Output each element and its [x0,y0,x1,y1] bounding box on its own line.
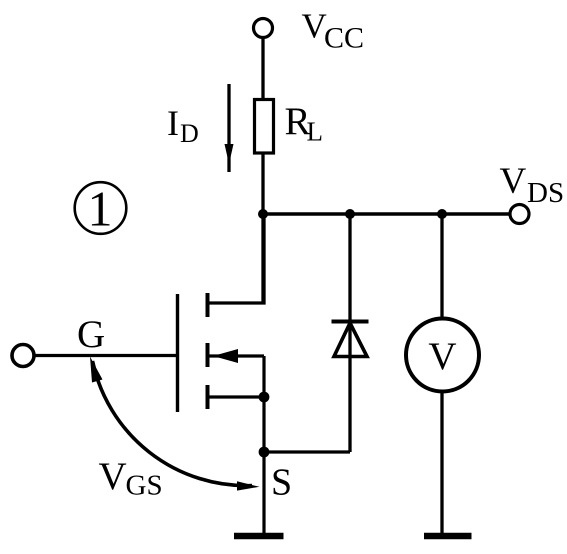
transistor Q1 channel bar bottom [206,385,210,409]
voltmeter V [406,319,479,392]
wire resistor to drain [261,153,264,304]
node body-source tie [259,392,270,403]
diode D1 triangle [334,323,367,357]
figure number 1 (circled) [75,181,127,237]
wire diode to source [264,450,350,453]
svg-text:L: L [307,117,324,147]
wire source lead [209,395,264,398]
ground (source) [234,533,284,540]
diode D1 cathode bar [332,320,369,324]
label VDS [500,161,565,209]
wire gate lead [35,354,177,357]
svg-text:D: D [180,119,199,148]
svg-text:S: S [271,462,292,504]
node source-diode junction [259,447,270,458]
wire body lead [209,354,264,357]
wire diode branch top [348,214,351,452]
svg-text:GS: GS [126,470,163,502]
wire drain lead [209,214,264,303]
label VCC [302,7,365,55]
transistor Q1 body arrow [213,349,238,363]
node drain junction [258,209,268,219]
label RL [285,100,324,147]
wire voltmeter bottom [440,392,443,535]
resistor RL [255,100,274,154]
svg-text:I: I [167,103,179,143]
svg-text:DS: DS [527,177,564,209]
svg-text:V: V [99,455,127,498]
terminal VCC (open circle) [254,19,273,38]
terminal G (open circle) [12,345,34,367]
ground (voltmeter) [424,533,472,540]
svg-text:G: G [77,313,105,356]
wire VCC to resistor [261,38,264,101]
arrow VGS (arc from G to S) [90,357,260,491]
svg-text:CC: CC [324,22,364,55]
transistor Q1 channel bar top [206,293,210,317]
node voltmeter junction [437,209,447,219]
node diode junction [345,209,355,219]
wire voltmeter top [440,214,443,319]
label VGS [99,455,163,502]
terminal VDS (open circle) [510,205,529,224]
label ID [167,103,199,148]
svg-text:V: V [302,7,327,46]
wire drain node to VDS terminal [262,212,512,215]
svg-text:1: 1 [88,181,113,237]
svg-text:V: V [428,335,456,378]
svg-text:V: V [500,161,527,202]
transistor Q1 gate plate [176,294,179,412]
current arrow ID [225,84,234,172]
wire source bus [262,356,265,534]
transistor Q1 channel bar middle [206,343,210,367]
